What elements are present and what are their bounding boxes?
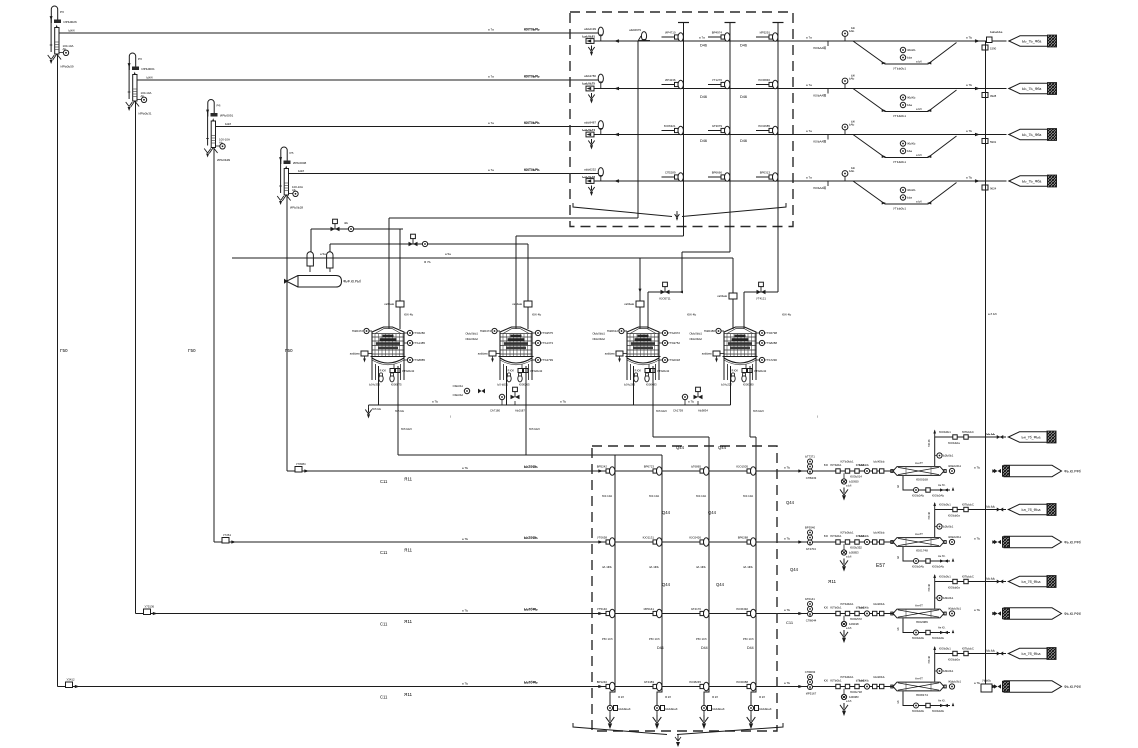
svg-text:ЬЬ ЬЬ: ЬЬ ЬЬ [987, 577, 996, 581]
svg-text:УТЬ7290: УТЬ7290 [765, 358, 777, 362]
svg-text:Ан-бТ: Ан-бТ [915, 677, 923, 681]
svg-text:4А 1ФЬ: 4А 1ФЬ [649, 565, 659, 569]
svg-text:аЬЬ2199: аЬЬ2199 [584, 27, 596, 31]
svg-text:Ь03198: Ь03198 [849, 622, 859, 626]
svg-text:ЮО2426: ЮО2426 [689, 536, 701, 540]
svg-text:ЖЬЖЬ: ЖЬЖЬ [907, 96, 916, 100]
svg-text:ЬТ7371: ЬТ7371 [805, 455, 815, 459]
svg-text:УТЬ0Ь42: УТЬ0Ь42 [754, 369, 767, 373]
svg-text:а 7Ь: а 7Ь [784, 608, 790, 612]
svg-text:Ю00168: Ю00168 [916, 478, 928, 482]
svg-text:Я11: Я11 [404, 477, 413, 482]
svg-text:ЮТЬ0ЬЬ1: ЮТЬ0ЬЬ1 [841, 531, 854, 535]
svg-text:ЬЬ_7Ь_Фба: ЬЬ_7Ь_Фба [1022, 180, 1041, 184]
svg-text:ОЬЬ0ЬЬ1: ОЬЬ0ЬЬ1 [465, 332, 478, 336]
svg-text:Q44: Q44 [708, 510, 717, 515]
svg-text:ЬЖб: ЬЖб [298, 169, 304, 173]
svg-text:ЖЬЬЬ0Ь1: ЖЬЬЬ0Ь1 [948, 464, 961, 468]
svg-text:Юб ЬЬ: Юб ЬЬ [372, 407, 381, 411]
svg-text:ЮОЬ0Ь1: ЮОЬ0Ь1 [939, 647, 951, 651]
svg-text:са6Ьмв: са6Ьмв [717, 294, 727, 298]
svg-text:ЮОЬ0АЬ: ЮОЬ0АЬ [932, 709, 944, 713]
svg-text:ЮОЬ572: ЮОЬ572 [850, 617, 862, 621]
svg-text:ПЖ0472: ПЖ0472 [352, 329, 364, 333]
svg-text:ЬЬЬЖЬ: ЬЬЬЖЬ [859, 606, 869, 610]
svg-text:Я 2б: Я 2б [665, 695, 671, 699]
svg-text:а 7Ь: а 7Ь [784, 537, 790, 541]
svg-text:D46: D46 [700, 139, 707, 143]
svg-text:УТ4121: УТ4121 [756, 297, 766, 301]
svg-text:4А 1ФЬ: 4А 1ФЬ [696, 565, 706, 569]
svg-text:ЮО6492: ЮО6492 [736, 607, 748, 611]
svg-text:аЬЬ9487: аЬЬ9487 [584, 121, 596, 125]
svg-text:ЬЬа: ЬЬа [907, 56, 913, 60]
svg-text:ИРЬ0Ь28: ИРЬ0Ь28 [290, 206, 303, 210]
svg-text:Ю00180: Ю00180 [743, 383, 754, 387]
svg-text:ЮО2685: ЮО2685 [758, 124, 770, 128]
svg-text:ЬЗЬ0Ь1: ЬЗЬ0Ь1 [943, 596, 954, 600]
svg-text:ВР6288: ВР6288 [738, 536, 749, 540]
svg-text:Ю0Т0ЬРЬ: Ю0Т0ЬРЬ [524, 168, 540, 172]
svg-text:ЬЬа: ЬЬа [907, 196, 913, 200]
svg-text:а Ьб: а Ьб [916, 107, 922, 111]
svg-text:D46: D46 [740, 95, 747, 99]
svg-text:ЮОЬ0АЬ: ЮОЬ0АЬ [912, 636, 924, 640]
svg-text:Ан-бТ: Ан-бТ [915, 604, 923, 608]
svg-text:ИP4236: ИP4236 [665, 78, 676, 82]
svg-text:D46: D46 [700, 44, 707, 48]
svg-text:Е57: Е57 [876, 563, 885, 569]
svg-text:Г50: Г50 [60, 348, 68, 353]
svg-text:С11: С11 [380, 622, 388, 627]
svg-text:Рб: Рб [138, 57, 142, 61]
svg-text:УТЬ0018: УТЬ0018 [668, 358, 680, 362]
svg-text:а 7Ь: а 7Ь [966, 176, 972, 180]
svg-text:D44: D44 [657, 646, 664, 650]
svg-text:ИРЬ0001: ИРЬ0001 [142, 67, 155, 71]
svg-text:УТЬ0Ь42: УТЬ0Ь42 [530, 369, 543, 373]
svg-text:а 7Ь: а 7Ь [462, 609, 468, 613]
svg-text:Ан Ю.: Ан Ю. [938, 554, 946, 558]
svg-text:а Ьб: а Ьб [846, 626, 852, 630]
svg-text:Я 2б: Я 2б [618, 695, 624, 699]
svg-text:ЬЬТбФЬ: ЬЬТбФЬ [524, 608, 538, 612]
svg-text:а 7Ь: а 7Ь [974, 681, 980, 685]
svg-text:Q44: Q44 [716, 582, 725, 587]
svg-text:ЖЬЖЬ: ЖЬЖЬ [907, 142, 916, 146]
svg-text:ЬЬа: ЬЬа [907, 103, 913, 107]
svg-text:УЬЬ0Ь: УЬЬ0Ь [982, 679, 991, 683]
svg-text:ЬЬ_7Ь_Фба: ЬЬ_7Ь_Фба [1022, 40, 1041, 44]
svg-text:а Ьб: а Ьб [916, 153, 922, 157]
svg-text:ааЬЬва: ааЬЬва [350, 352, 360, 356]
svg-text:ПЖ0612: ПЖ0612 [607, 329, 619, 333]
svg-text:а Ьб: а Ьб [846, 555, 852, 559]
svg-text:ВР5242: ВР5242 [597, 465, 608, 469]
svg-text:ЬЬЖ0ЬЬ: ЬЬЖ0ЬЬ [874, 460, 885, 464]
svg-text:Ю08174: Ю08174 [916, 693, 928, 697]
svg-text:а 7Ь: а 7Ь [462, 682, 468, 686]
svg-text:ЬЖб: ЬЖб [69, 29, 75, 33]
svg-text:Ьн_7б_ФЬа: Ьн_7б_ФЬа [1022, 436, 1041, 440]
svg-text:D44: D44 [747, 646, 754, 650]
svg-text:Я11: Я11 [404, 692, 413, 697]
svg-text:УТЬ5798: УТЬ5798 [765, 331, 777, 335]
svg-text:Ю0Т0ЬРЬ: Ю0Т0ЬРЬ [524, 121, 540, 125]
svg-text:У3412: У3412 [67, 678, 75, 682]
svg-text:а 7а: а 7а [488, 121, 494, 125]
svg-text:ЬЗЬ0Ь1: ЬЗЬ0Ь1 [943, 525, 954, 529]
svg-text:Ьн_7б_ФЬа: Ьн_7б_ФЬа [1022, 508, 1041, 512]
svg-text:ВР4974: ВР4974 [712, 31, 723, 35]
svg-text:ЬТ4170: ЬТ4170 [691, 607, 701, 611]
svg-text:ЮТЬ0ЬЬ1: ЮТЬ0ЬЬ1 [841, 460, 854, 464]
svg-text:Q44: Q44 [662, 510, 671, 515]
svg-text:ЬЗЬ0Ь1: ЬЗЬ0Ь1 [943, 669, 954, 673]
svg-text:1590: 1590 [990, 47, 997, 51]
svg-text:ИРЬ0026: ИРЬ0026 [64, 20, 77, 24]
svg-text:Ю0: Ю0 [824, 534, 829, 538]
svg-text:УТЬ5280: УТЬ5280 [413, 331, 425, 335]
svg-text:УТЬ0Ь42: УТЬ0Ь42 [402, 369, 415, 373]
svg-text:ВР6666: ВР6666 [712, 171, 723, 175]
svg-text:УТ1276: УТ1276 [712, 78, 722, 82]
svg-text:УТЬ3799: УТЬ3799 [541, 358, 553, 362]
svg-text:АЬ: АЬ [292, 188, 296, 192]
svg-text:АЬ: АЬ [219, 141, 223, 145]
svg-text:РЮ 1Сб: РЮ 1Сб [696, 637, 707, 641]
svg-text:Ан-бТ: Ан-бТ [915, 461, 923, 465]
svg-text:ЮО8245: ЮО8245 [689, 680, 701, 684]
svg-text:а Ьб: а Ьб [916, 200, 922, 204]
svg-text:АЬ: АЬ [63, 47, 67, 51]
svg-text:Я11: Я11 [404, 548, 413, 553]
svg-text:Ь02650: Ь02650 [849, 480, 859, 484]
svg-text:ОЬЬ0ЬЬ1: ОЬЬ0ЬЬ1 [592, 332, 605, 336]
svg-text:аЬЬ6252: аЬЬ6252 [584, 168, 596, 172]
svg-text:ЮОЬ0АЬ: ЮОЬ0АЬ [932, 494, 944, 498]
svg-text:Юб 4Ь: Юб 4Ь [404, 313, 413, 317]
svg-text:ЖЬЖЬ: ЖЬЖЬ [907, 48, 916, 52]
svg-text:Q44: Q44 [786, 500, 795, 505]
svg-text:ЬЬЬЬЬнЗ: ЬЬЬЬЬнЗ [666, 707, 678, 711]
svg-text:аЬЬ5979: аЬЬ5979 [629, 28, 641, 32]
svg-text:Ю00875: Ю00875 [391, 383, 402, 387]
svg-text:Ю0ЬАА啊: Ю0ЬАА啊 [813, 186, 826, 190]
svg-text:УТЬ1485: УТЬ1485 [413, 341, 425, 345]
svg-text:ЖЬЬЬ0Ь1: ЖЬЬЬ0Ь1 [948, 607, 961, 611]
svg-text:ОЬЬ0ЬЬ2: ОЬЬ0ЬЬ2 [689, 337, 702, 341]
svg-text:ЬЖ: ЬЖ [851, 26, 856, 30]
svg-text:ЮТЬ0Ь1: ЮТЬ0Ь1 [830, 606, 842, 610]
svg-text:ЬЬ ЬЬ: ЬЬ ЬЬ [987, 432, 996, 436]
svg-text:ОЬЬ0ЬЬ2: ОЬЬ0ЬЬ2 [465, 337, 478, 341]
svg-text:ИP4710: ИP4710 [665, 31, 676, 35]
svg-text:ЮОЬ0АЬ: ЮОЬ0АЬ [932, 565, 944, 569]
svg-text:ИРЬ0008: ИРЬ0008 [293, 161, 306, 165]
svg-text:Г50: Г50 [188, 348, 196, 353]
svg-text:5901: 5901 [990, 140, 997, 144]
svg-text:ЖЬ: ЖЬ [344, 221, 348, 225]
svg-text:Юб ЬЬб: Юб ЬЬб [529, 427, 540, 431]
svg-text:АЬ: АЬ [141, 94, 145, 98]
svg-text:УТЬЬ0Ь1: УТЬЬ0Ь1 [893, 160, 906, 164]
svg-text:Q44: Q44 [718, 445, 727, 450]
svg-text:Ю4 10А: Ю4 10А [649, 494, 659, 498]
svg-text:Я 2б: Я 2б [759, 695, 765, 699]
svg-text:4А 1ФЬ: 4А 1ФЬ [602, 565, 612, 569]
svg-text:ОЬЬ0ЬЬ1: ОЬЬ0ЬЬ1 [689, 332, 702, 336]
svg-text:РЮ 1Сб: РЮ 1Сб [602, 637, 613, 641]
svg-text:ЬТ0141: ЬТ0141 [805, 597, 815, 601]
svg-text:ЬаЬ0Ь74: ЬаЬ0Ь74 [582, 128, 595, 132]
svg-text:Юб 4б: Юб 4б [928, 511, 931, 519]
svg-text:а 5а: а 5а [320, 252, 326, 256]
svg-text:УТЬ8288: УТЬ8288 [765, 341, 777, 345]
svg-text:Ьн_7б_ФЬа: Ьн_7б_ФЬа [1022, 652, 1041, 656]
svg-text:ЬЖб: ЬЖб [225, 122, 231, 126]
svg-text:Ю0: Ю0 [824, 606, 829, 610]
svg-text:ОЬЬ0Ь1: ОЬЬ0Ь1 [453, 384, 464, 388]
svg-text:ЬЖ: ЬЖ [851, 74, 856, 78]
svg-text:а Ьб: а Ьб [846, 484, 852, 488]
svg-text:а 7Ь: а 7Ь [966, 83, 972, 87]
svg-text:Юб 4Ь: Юб 4Ь [687, 313, 696, 317]
svg-text:УТЬ1373: УТЬ1373 [541, 341, 553, 345]
svg-text:ИРЬ0Ь31: ИРЬ0Ь31 [139, 112, 152, 116]
svg-text:ЬаЬаЬЬа: ЬаЬаЬЬа [990, 30, 1003, 34]
svg-text:ЮО1131: ЮО1131 [643, 536, 655, 540]
svg-text:Юб 4Ь: Юб 4Ь [782, 313, 791, 317]
svg-text:ЮТЬЬЬС: ЮТЬЬЬС [962, 647, 974, 651]
svg-text:УТ0658: УТ0658 [597, 536, 607, 540]
svg-text:а 7а: а 7а [806, 176, 812, 180]
svg-text:а 7а: а 7а [488, 168, 494, 172]
svg-text:ЬЬЬЬЬнЗ: ЬЬЬЬЬнЗ [619, 707, 631, 711]
svg-text:ЬЬа: ЬЬа [907, 149, 913, 153]
svg-text:Ан Ю.: Ан Ю. [938, 699, 946, 703]
svg-text:ИP5167: ИP5167 [806, 692, 817, 696]
svg-text:ЮО0088: ЮО0088 [736, 680, 748, 684]
svg-text:УТЬ9575: УТЬ9575 [541, 331, 553, 335]
svg-text:!: ! [450, 415, 451, 419]
svg-text:ЮОЬЬ0а: ЮОЬЬ0а [948, 658, 960, 662]
svg-text:УТ5140: УТ5140 [597, 607, 607, 611]
svg-text:а 7Ь: а 7Ь [432, 400, 438, 404]
svg-text:са6Ьмв: са6Ьмв [512, 302, 522, 306]
svg-text:са6Ьмв: са6Ьмв [384, 302, 394, 306]
svg-text:ЮТЬ0ЬЬ1: ЮТЬ0ЬЬ1 [841, 675, 854, 679]
svg-text:ОЬЬ0Ь2: ОЬЬ0Ь2 [453, 393, 464, 397]
svg-text:У7261: У7261 [223, 533, 231, 537]
svg-text:ЬаЬ0Ь75: ЬаЬ0Ь75 [582, 82, 595, 86]
svg-text:ЖЬЬЬ0Ь1: ЖЬЬЬ0Ь1 [948, 680, 961, 684]
svg-text:СП9093: СП9093 [805, 670, 816, 674]
svg-text:УТЬ9752: УТЬ9752 [668, 341, 680, 345]
svg-text:Ю01748: Ю01748 [916, 549, 928, 553]
svg-text:ЬТ4704: ЬТ4704 [806, 547, 816, 551]
svg-text:Ю4 10А: Ю4 10А [602, 494, 612, 498]
svg-text:ЬТ3079: ЬТ3079 [712, 124, 722, 128]
svg-text:ИРЬ0Ь59: ИРЬ0Ь59 [61, 65, 74, 69]
svg-text:Ь00083: Ь00083 [849, 695, 859, 699]
svg-text:Ю00265: Ю00265 [519, 383, 530, 387]
svg-text:Юб 4б: Юб 4б [928, 655, 931, 663]
svg-text:ЬЬТбФЬ: ЬЬТбФЬ [524, 681, 538, 685]
svg-text:Рб: Рб [217, 104, 221, 108]
svg-text:ФЬ.Ю.РФб: ФЬ.Ю.РФб [1064, 541, 1081, 545]
svg-text:СА7180: СА7180 [490, 409, 500, 413]
svg-text:У75136: У75136 [145, 605, 155, 609]
svg-text:ЬЬЖ0ЬЬ: ЬЬЖ0ЬЬ [874, 531, 885, 535]
svg-text:ЮО5711: ЮО5711 [659, 297, 671, 301]
svg-text:Юб ЬЬб: Юб ЬЬб [401, 427, 412, 431]
svg-text:а 5а: а 5а [445, 252, 451, 256]
svg-text:ЬЖ: ЬЖ [851, 120, 856, 124]
svg-text:Я Юб: Я Юб [508, 370, 515, 373]
svg-text:Q44: Q44 [790, 567, 799, 572]
svg-text:ЬЬЬЖЬ: ЬЬЬЖЬ [859, 463, 869, 467]
svg-text:СП8433: СП8433 [806, 476, 817, 480]
svg-text:ВР9340: ВР9340 [805, 526, 816, 530]
svg-text:ЬЬЬЖЬ: ЬЬЬЖЬ [859, 534, 869, 538]
svg-text:Г50: Г50 [285, 348, 293, 353]
svg-text:СП6044: СП6044 [806, 619, 817, 623]
svg-text:ЮОЬ0Ь1: ЮОЬ0Ь1 [939, 430, 951, 434]
svg-text:Ю0Т0ЬРЬ: Ю0Т0ЬРЬ [524, 75, 540, 79]
svg-text:D46: D46 [700, 95, 707, 99]
svg-text:ЬЬТбФЬ: ЬЬТбФЬ [524, 536, 538, 540]
svg-text:а 7Ь: а 7Ь [974, 466, 980, 470]
svg-text:ЬЬ ЬЬ: ЬЬ ЬЬ [987, 505, 996, 509]
svg-text:Юб 4б: Юб 4б [928, 439, 931, 447]
svg-text:Ю0ЬАА啊: Ю0ЬАА啊 [813, 94, 826, 98]
svg-text:Я11: Я11 [828, 579, 837, 584]
svg-text:ааЬЬва: ааЬЬва [478, 352, 488, 356]
svg-text:ЮОЬЬ0а: ЮОЬЬ0а [948, 514, 960, 518]
svg-text:ЮТЬ0ЬЬ1: ЮТЬ0ЬЬ1 [841, 602, 854, 606]
svg-text:ЬЖб: ЬЖб [147, 76, 153, 80]
svg-text:РЮ 1Сб: РЮ 1Сб [649, 637, 660, 641]
svg-text:Ю0ЬАА啊: Ю0ЬАА啊 [813, 46, 826, 50]
svg-text:ЮОЬ0Ь1: ЮОЬ0Ь1 [939, 575, 951, 579]
svg-text:!: ! [817, 415, 818, 419]
svg-text:ЮОЬ0АЬ: ЮОЬ0АЬ [932, 636, 944, 640]
svg-text:а 7Ь: а 7Ь [462, 537, 468, 541]
svg-text:ааЬЬва: ааЬЬва [605, 352, 615, 356]
svg-text:ЮТЬ0Ь1: ЮТЬ0Ь1 [830, 534, 842, 538]
svg-text:ЬЬ_7Ь_Фба: ЬЬ_7Ь_Фба [1022, 133, 1041, 137]
svg-text:а 7Ь: а 7Ь [462, 466, 468, 470]
svg-text:ВР6723: ВР6723 [644, 465, 655, 469]
svg-text:ИРЬ0Ь99: ИРЬ0Ь99 [217, 158, 230, 162]
svg-text:а 7Ь: а 7Ь [974, 608, 980, 612]
svg-text:ЮТЬ0Ь1: ЮТЬ0Ь1 [830, 463, 842, 467]
svg-text:ЬЬЖ0ЬЬ: ЬЬЖ0ЬЬ [874, 675, 885, 679]
svg-text:УТЬ8885: УТЬ8885 [413, 358, 425, 362]
svg-text:Ю0ЬАА啊: Ю0ЬАА啊 [813, 140, 826, 144]
svg-text:Ю02086: Ю02086 [916, 620, 928, 624]
svg-text:ЮОЬ352: ЮОЬ352 [850, 546, 862, 550]
svg-text:У78384: У78384 [296, 462, 306, 466]
svg-text:а 7Ь: а 7Ь [966, 129, 972, 133]
svg-text:С11: С11 [380, 695, 388, 700]
svg-text:ИP0141: ИP0141 [644, 607, 655, 611]
svg-text:Я 7Ь: Я 7Ь [424, 260, 431, 264]
svg-text:ЬаЬ0Ь81: ЬаЬ0Ь81 [582, 35, 595, 39]
svg-text:ЮОЬ718: ЮОЬ718 [850, 690, 862, 694]
svg-text:Q44: Q44 [662, 582, 671, 587]
svg-text:Ю0Т0ЬРЬ: Ю0Т0ЬРЬ [524, 28, 540, 32]
svg-text:Ан Ю.: Ан Ю. [938, 626, 946, 630]
svg-text:D46: D46 [740, 139, 747, 143]
svg-text:Ан-бТ: Ан-бТ [915, 532, 923, 536]
svg-text:УТЬЬ0Ь1: УТЬЬ0Ь1 [893, 207, 906, 211]
svg-text:УТЬЬ0Ь1: УТЬЬ0Ь1 [893, 67, 906, 71]
svg-text:ЬЬ ЬЬ: ЬЬ ЬЬ [987, 649, 996, 653]
svg-text:ФЬ.Ю.РФб: ФЬ.Ю.РФб [1064, 685, 1081, 689]
svg-text:ЬЖ: ЬЖ [851, 166, 856, 170]
svg-text:ЬЬЬЬЬнЗ: ЬЬЬЬЬнЗ [713, 707, 725, 711]
svg-text:а 7Ь: а 7Ь [560, 400, 566, 404]
svg-text:а б Ьб: а б Ьб [988, 312, 997, 316]
svg-text:С11: С11 [380, 479, 388, 484]
svg-text:ИРЬ0091: ИРЬ0091 [220, 114, 233, 118]
svg-text:Q44: Q44 [676, 445, 685, 450]
svg-text:ЬТ6865: ЬТ6865 [691, 465, 701, 469]
svg-text:а 7Ь: а 7Ь [784, 681, 790, 685]
svg-text:а 7а: а 7а [488, 75, 494, 79]
svg-text:D44: D44 [701, 646, 708, 650]
svg-text:ЮТЬ0Ь1: ЮТЬ0Ь1 [830, 679, 842, 683]
svg-text:ЖЬЬЬ0Ь1: ЖЬЬЬ0Ь1 [948, 535, 961, 539]
svg-text:Ю4 10А: Ю4 10А [696, 494, 706, 498]
svg-text:Ь05853: Ь05853 [849, 551, 859, 555]
svg-text:Ю00483: Ю00483 [646, 383, 657, 387]
svg-text:ааЬЬва: ааЬЬва [702, 352, 712, 356]
svg-text:УТЬЬ0Ь1: УТЬЬ0Ь1 [893, 114, 906, 118]
svg-text:Я Юб: Я Юб [732, 370, 739, 373]
svg-text:ИP5291: ИP5291 [760, 31, 771, 35]
svg-text:Рб: Рб [60, 10, 64, 14]
svg-text:Ю0: Ю0 [824, 679, 829, 683]
svg-text:ФЬ.Ю.РФб: ФЬ.Ю.РФб [1064, 470, 1081, 474]
svg-text:а 7а: а 7а [806, 36, 812, 40]
svg-text:Я 2б: Я 2б [712, 695, 718, 699]
svg-text:ЮТЬЬЬС: ЮТЬЬЬС [962, 575, 974, 579]
svg-text:СП5289: СП5289 [665, 171, 676, 175]
svg-text:ЬЗЬ0Ь1: ЬЗЬ0Ь1 [943, 454, 954, 458]
svg-text:ОЬЬ0ЬЬ2: ОЬЬ0ЬЬ2 [592, 337, 605, 341]
svg-text:ВР1240: ВР1240 [597, 680, 608, 684]
svg-text:Юб ЬЬ: Юб ЬЬ [395, 409, 404, 413]
svg-text:D46: D46 [740, 44, 747, 48]
svg-text:Юб ЬЬб: Юб ЬЬб [656, 409, 667, 413]
svg-text:ЬЬЬЬЬнЗ: ЬЬЬЬЬнЗ [760, 707, 772, 711]
svg-text:4А 1ФЬ: 4А 1ФЬ [743, 565, 753, 569]
svg-text:СА1759: СА1759 [673, 409, 683, 413]
svg-text:а 7Ь: а 7Ь [784, 466, 790, 470]
svg-text:С11: С11 [380, 550, 388, 555]
svg-text:ПЖ0486: ПЖ0486 [704, 329, 716, 333]
svg-text:ЮТЬЬЬС: ЮТЬЬЬС [962, 503, 974, 507]
svg-text:Ьн_7б_ФЬа: Ьн_7б_ФЬа [1022, 580, 1041, 584]
svg-text:С11: С11 [786, 620, 794, 625]
svg-text:ЮОЬЬ0а: ЮОЬЬ0а [948, 586, 960, 590]
svg-text:а 7а: а 7а [806, 129, 812, 133]
svg-text:ФЬ.Ю.РФб: ФЬ.Ю.РФб [1064, 612, 1081, 616]
svg-text:Ан Ю.: Ан Ю. [938, 483, 946, 487]
